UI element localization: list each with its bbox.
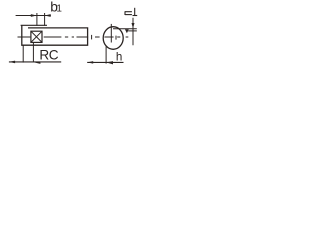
horizontal center line (dash-dot across both views) (18, 35, 129, 40)
svg-text:h: h (116, 51, 122, 64)
h reference line (87, 61, 123, 63)
crossed box diagonal 1 (31, 31, 42, 42)
extension line b1 left (36, 13, 38, 26)
vertical center line of circle (110, 24, 112, 43)
RC leader from crossed box bottom (32, 42, 34, 62)
keyway flat line A (113, 28, 137, 30)
vertical dimension line right (132, 18, 134, 46)
extension line b1 right (44, 13, 46, 26)
key top line (21, 24, 47, 26)
RC reference line (9, 61, 61, 63)
h mid arrow at extension line (106, 61, 113, 64)
dimension line b1 (16, 15, 51, 17)
RC arrow (pointing left) (9, 61, 15, 64)
svg-text:RC: RC (39, 47, 58, 62)
svg-text:1: 1 (56, 4, 62, 15)
arrow right of b1 (pointing left) (45, 14, 51, 17)
key section crossed box (31, 31, 42, 42)
rotated label t1 (drawn strokes) (125, 8, 137, 16)
shaft outline: top edge starts right of keyway end (22, 25, 88, 45)
arrow left of b1 (pointing right) (31, 14, 37, 17)
extension line B (128, 30, 137, 32)
RC extension line from rect bottom left (22, 45, 24, 62)
RC half arrow at leader (34, 62, 41, 64)
down arrow on dimension line (132, 23, 135, 28)
h extension line below circle (105, 47, 107, 64)
crossed box diagonal 2 (31, 31, 42, 42)
h far left arrow (pointing left) (87, 61, 93, 64)
small arrow near line B (125, 29, 129, 33)
shaft circle (end view) (103, 27, 123, 50)
label b1 (50, 0, 62, 15)
